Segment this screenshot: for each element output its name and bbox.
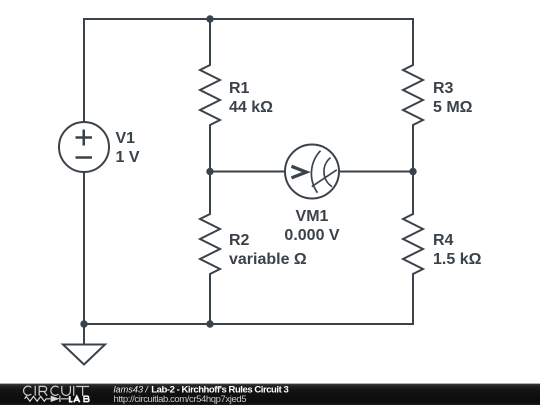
svg-text:lams43: lams43	[114, 385, 145, 395]
svg-text:1.5 kΩ: 1.5 kΩ	[433, 251, 482, 268]
svg-text:1 V: 1 V	[116, 149, 140, 166]
svg-text:0.000 V: 0.000 V	[284, 227, 339, 244]
svg-text:VM1: VM1	[296, 208, 329, 225]
svg-text:5 MΩ: 5 MΩ	[433, 99, 473, 116]
svg-text:R4: R4	[433, 232, 454, 249]
svg-text:R2: R2	[229, 232, 250, 249]
svg-text:variable Ω: variable Ω	[229, 251, 307, 268]
svg-text:44 kΩ: 44 kΩ	[229, 99, 273, 116]
svg-text:http://circuitlab.com/cr54hqp7: http://circuitlab.com/cr54hqp7xjed5	[114, 394, 247, 405]
svg-text:R1: R1	[229, 80, 250, 97]
svg-text:R3: R3	[433, 80, 454, 97]
svg-text:V1: V1	[116, 130, 136, 147]
